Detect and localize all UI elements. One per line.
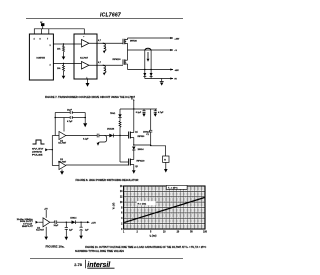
node gate bus [119,135,120,136]
buffer A4 1/2 ICL7667 [58,159,67,170]
resistor R4 750 [110,113,121,136]
ground under Q4 [132,170,136,173]
node bypass left [54,117,56,119]
wire bypass right leg [84,113,86,124]
svg-text:750Ω: 750Ω [110,113,115,115]
footer divider [84,260,86,268]
svg-text:tₖ (ns): tₖ (ns) [150,235,157,238]
diode D4 [118,109,121,118]
svg-text:0.1μF: 0.1μF [136,112,142,114]
wire top supply rail [34,29,84,34]
wire rail L4 [145,78,173,80]
node rail junction [133,108,134,109]
svg-text:+15V: +15V [91,222,96,224]
diode D1 [143,73,146,76]
ground under R1 [62,54,66,60]
ground under U2 [86,77,90,86]
capacitor C6 4.7uF [154,109,164,117]
winding L2 [103,65,106,76]
svg-text:ICL7667: ICL7667 [100,13,121,19]
node junction L3b [150,69,151,70]
wire V+ stub [131,98,134,109]
capacitor C8 10uF [54,220,67,227]
svg-text:1N4148: 1N4148 [107,127,115,130]
svg-text:FIGURE 8. HIGH POWER SWITCHIN: FIGURE 8. HIGH POWER SWITCHING REGULATOR [76,178,139,182]
wire driver out 1 [89,42,123,44]
ground under RL [164,162,168,172]
node bypass right [84,117,86,119]
svg-text:2-78: 2-78 [74,263,82,267]
capacitor C7 1000uF [143,109,152,146]
svg-text:FIGURE 7. TRANSFORMER COUPLED: FIGURE 7. TRANSFORMER COUPLED DRIVE CIRC… [45,95,136,99]
svg-text:10μF: 10μF [67,110,73,112]
node junction L3a [144,69,145,70]
footer rule [30,258,183,260]
svg-text:FIGURE 10. OUTPUT VOLTAGE RIS: FIGURE 10. OUTPUT VOLTAGE RISE TIME vs L… [85,246,206,249]
oscillator U1 ICM7555 [29,34,53,80]
svg-text:1N914: 1N914 [138,148,145,151]
supply +5V [44,208,48,218]
svg-text:ICL7667: ICL7667 [58,143,67,145]
capacitor C2 4.7uF [55,116,85,123]
svg-text:0.1μF: 0.1μF [83,138,89,140]
transistor Q3 IRF530 [120,109,145,145]
winding L1 [103,43,106,54]
buffer A1 [82,40,90,48]
svg-text:Rₗ = 10Ω: Rₗ = 10Ω [138,203,147,206]
wire V+ rail fig8 [120,108,157,110]
graph legend box TA=25C [166,185,187,189]
svg-text:ICL7667: ICL7667 [36,230,45,232]
capacitor C1 10uF [55,110,85,114]
wire A4 out [66,164,129,166]
wire to buffer A4 [52,165,59,167]
wire buffer top supply [63,118,65,132]
svg-text:+48V: +48V [174,37,179,40]
wire gate bus vertical [119,136,121,163]
svg-text:4.7μF: 4.7μF [67,120,73,123]
graph grid [124,186,205,229]
wire input arrow [45,148,52,151]
graph curve [124,198,204,223]
svg-text:ICM7555: ICM7555 [37,58,46,60]
wire bypass left leg [54,113,56,136]
svg-text:0V-5V: 0V-5V [32,149,45,151]
diode D3 1N4148 [105,127,121,137]
wire driver out 2 [89,64,123,66]
svg-text:SHOWING TYPICAL RISE TIME VALU: SHOWING TYPICAL RISE TIME VALUES [75,250,124,253]
graph y labels [120,186,123,231]
wire output to load [134,145,166,156]
capacitor C3 [66,134,99,141]
ground under C10 [79,236,83,239]
buffer A5 1/2 ICL7667 [36,218,50,232]
resistor R2 10k [57,64,65,74]
graph x labels [123,231,208,233]
resistor R1 10k [57,44,65,54]
node A [63,43,64,44]
svg-text:1N914: 1N914 [70,216,77,219]
wire input bus [51,136,53,166]
node output [133,144,134,145]
svg-text:IRF9130: IRF9130 [137,161,146,163]
svg-text:PULSE: PULSE [32,155,43,157]
svg-text:IRF9130: IRF9130 [113,59,122,61]
graph minor-grid gray bands [124,187,205,228]
wire rail L2 [128,49,174,51]
wire rail L3 [128,69,174,71]
pulse source V1 [32,140,45,157]
svg-text:FIGURE 10a.: FIGURE 10a. [46,245,65,249]
svg-text:Q2: Q2 [135,166,138,168]
transistor Q2 IRF9130 [113,50,128,70]
svg-text:-48V: -48V [174,69,179,72]
svg-text:T₀ = 25°C: T₀ = 25°C [168,188,178,190]
node cap tap [150,145,151,146]
node terminal -48V [170,68,173,70]
node terminal +48V [170,37,173,39]
buffer A2 [82,62,90,70]
svg-text:V₀ (V): V₀ (V) [113,203,116,210]
ground under C9 [65,237,69,240]
node terminal GND [170,77,173,79]
node shunt2 [80,222,81,223]
diode D5 [132,147,144,159]
ground on L4 [160,79,164,86]
wire to buffer A3 [52,135,59,137]
header rule [26,18,183,20]
ground bypass [83,123,87,127]
capacitor C5 0.1uF [136,109,146,117]
wire A5 out [50,221,55,223]
footer logo intersil [87,262,114,269]
transistor Q4 IRF9130 [120,159,145,171]
wire pin stubs top [40,29,42,34]
svg-text:INPUT: INPUT [22,226,34,228]
capacitor C9 [65,222,74,237]
wire osc out A [53,43,81,45]
svg-text:4.7μF: 4.7μF [158,111,164,114]
svg-text:IRF530: IRF530 [138,136,146,138]
ground under R2 [62,73,66,79]
wire osc out B [53,63,81,65]
diode D6 1N914 [66,216,81,224]
node terminal +V [170,49,173,51]
winding L3 gate transformer [97,135,107,145]
input label block [17,219,35,228]
svg-text:100kHz: 100kHz [32,152,43,154]
transistor Q1 IRF530 [123,38,138,50]
svg-text:IRF530: IRF530 [130,41,138,43]
load RL box [163,156,169,162]
diode D2 [150,73,153,76]
svg-text:1: 1 [86,77,87,79]
wire input arrow 10a [36,221,44,224]
graph frame [124,186,205,229]
ground under A4 [60,170,64,175]
ground under A5 [44,227,48,240]
battery B1 [40,22,44,29]
node shunt1 [66,222,67,223]
wire out terminal [81,221,96,224]
svg-text:ICL7667: ICL7667 [80,57,89,59]
node B [63,63,64,64]
transformer T1 primary [145,48,151,78]
node input bus [52,149,53,150]
svg-text:10μF: 10μF [54,225,60,227]
driver U2 ICL7667 box [74,34,97,79]
capacitor C10 [80,222,90,235]
wire rail L1 top [128,37,174,39]
buffer A3 1/2 ICL7667 [58,132,67,145]
graph inner label [137,201,156,205]
